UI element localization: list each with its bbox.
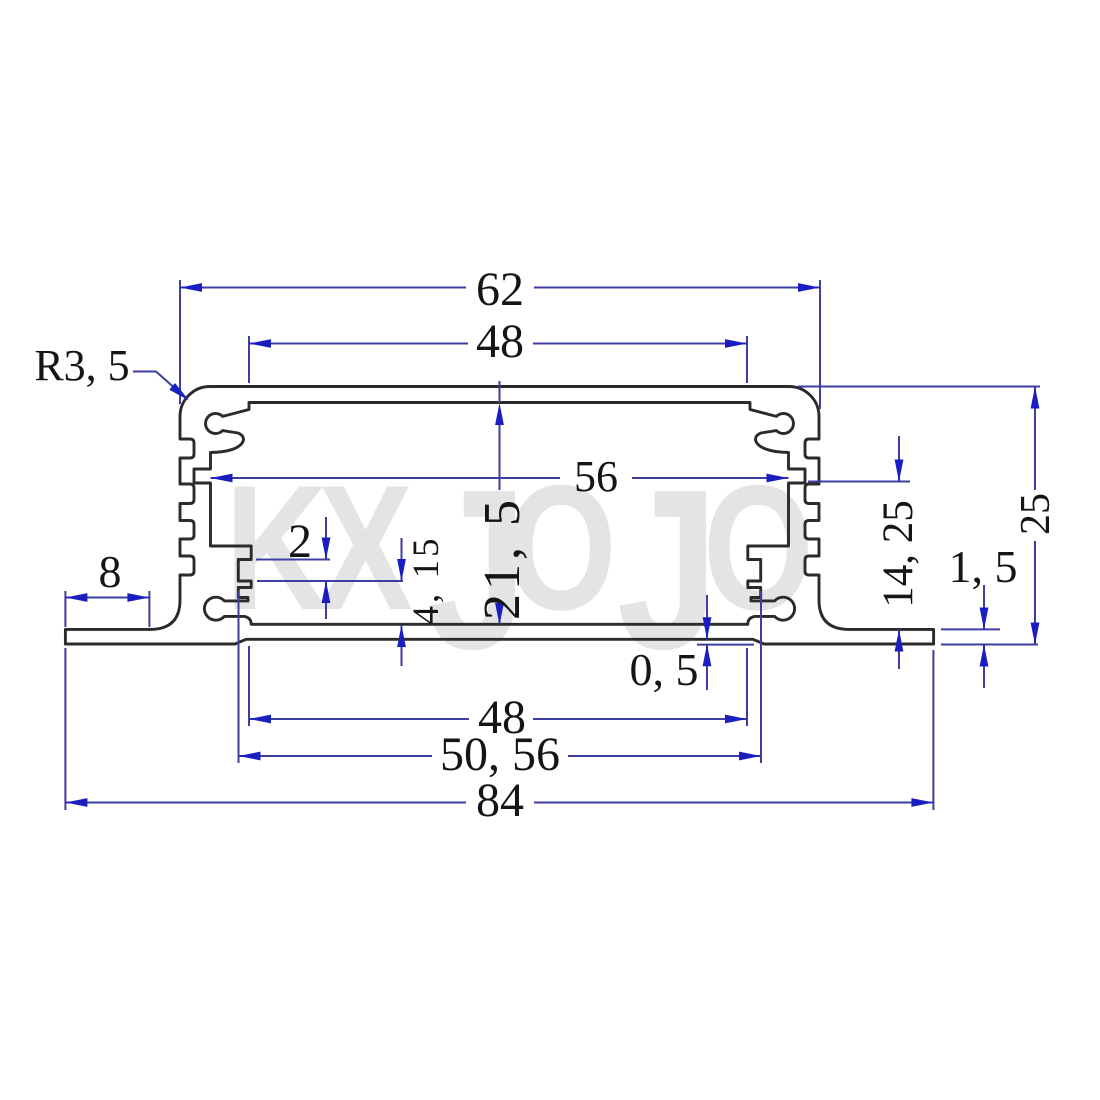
62 arrows (180, 283, 202, 292)
R3,5 arrow (169, 383, 192, 404)
svg-text:R3, 5: R3, 5 (34, 341, 129, 390)
dimension lines (65, 280, 1040, 810)
dim 4,15 lines (401, 538, 403, 666)
svg-text:2: 2 (288, 515, 312, 568)
dim 48 top lines (249, 336, 747, 383)
1,5 arrows (980, 608, 989, 630)
21,5 arrows (495, 403, 504, 425)
2 arrows (322, 538, 331, 560)
14,25 arrows (895, 460, 904, 482)
svg-text:8: 8 (99, 546, 122, 597)
50,56 arrows (239, 752, 261, 761)
56 arrows (211, 474, 233, 483)
svg-text:0, 5: 0, 5 (630, 644, 699, 695)
dim 84 lines (65, 648, 933, 810)
dim 8 lines (65, 591, 149, 627)
dim 14,25 lines (808, 436, 910, 669)
inner contour left half (194, 403, 500, 625)
dim 25 lines (798, 387, 1040, 645)
watermark KXJOJO (225, 441, 814, 696)
outer contour left half (65, 387, 499, 645)
svg-text:21, 5: 21, 5 (474, 496, 531, 620)
inner contour right half (mirror) (500, 403, 806, 625)
svg-text:84: 84 (476, 774, 524, 827)
svg-text:56: 56 (574, 452, 618, 501)
0,5 arrows (703, 617, 712, 639)
84 arrows (65, 798, 87, 807)
dim 1,5 lines (941, 585, 1038, 688)
profile outline (65, 387, 933, 645)
dim 0,5 lines (697, 595, 754, 690)
dim 50,56 lines (239, 591, 762, 763)
R3,5 leader (133, 372, 187, 400)
dim 2 lines (256, 517, 403, 619)
8 arrows (65, 593, 87, 602)
dim 56 lines (211, 477, 789, 479)
outer contour right half (mirror) (500, 387, 934, 645)
4,15 arrows (397, 559, 406, 581)
25 arrows (1031, 387, 1040, 409)
dim 48 bottom lines (249, 646, 747, 726)
48 top arrows (249, 339, 271, 348)
svg-text:4, 15: 4, 15 (406, 536, 447, 625)
dim 62 lines (180, 280, 820, 409)
dimension texts (34, 263, 1059, 827)
svg-text:25: 25 (1013, 493, 1059, 535)
svg-text:48: 48 (476, 315, 524, 368)
48 bottom arrows (249, 715, 271, 724)
svg-text:62: 62 (476, 263, 524, 316)
dim 21,5 lines (499, 381, 501, 625)
arrowheads (65, 283, 1039, 807)
svg-text:50, 56: 50, 56 (440, 728, 560, 781)
svg-text:14, 25: 14, 25 (875, 500, 922, 608)
svg-text:1, 5: 1, 5 (949, 541, 1018, 592)
